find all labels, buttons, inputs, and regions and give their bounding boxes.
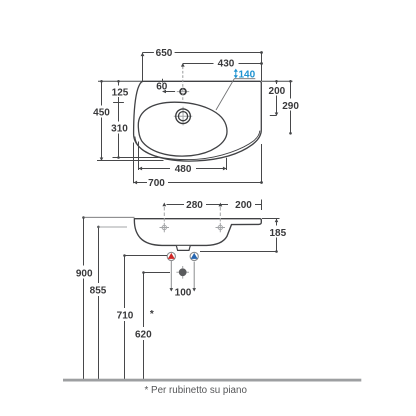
dim 480 (139, 142, 227, 176)
dim 650 (141, 48, 263, 81)
left vertical dim 900 (76, 216, 135, 379)
svg-text:* Per rubinetto su piano: * Per rubinetto su piano (145, 385, 248, 396)
mounting hole crosshair right (216, 223, 226, 233)
svg-text:100: 100 (175, 288, 192, 299)
faucet hole circle (180, 89, 186, 95)
svg-text:650: 650 (156, 48, 173, 59)
faucet centerline (dashed) (182, 67, 184, 101)
svg-text:430: 430 (218, 59, 235, 70)
basin inner bottom rim line (top view) (135, 131, 260, 160)
svg-text:710: 710 (117, 311, 134, 322)
left vertical dim 855 (90, 226, 127, 379)
svg-text:900: 900 (76, 268, 93, 279)
dim 280 / 200 (front view) (162, 200, 261, 212)
floor bar (63, 379, 361, 382)
dim 200 (top view right) (269, 80, 286, 116)
dim 60 (156, 79, 175, 93)
faucet hole centerline tick (177, 91, 189, 93)
svg-text:125: 125 (112, 87, 129, 98)
svg-text:620: 620 (135, 330, 152, 341)
overflow hole inner circle (178, 112, 187, 121)
svg-text:310: 310 (111, 124, 128, 135)
dashed lines to holes (163, 207, 165, 222)
dim 140 blue with updown icon (234, 69, 256, 81)
svg-text:290: 290 (282, 101, 299, 112)
dim 450 (93, 80, 163, 161)
hot water symbol (red) (167, 252, 175, 260)
dim 430 (181, 59, 263, 70)
drain spigot (front view) (176, 246, 190, 251)
left vertical dim 620 (135, 271, 170, 379)
mounting hole crosshair left (160, 223, 170, 233)
overflow hole outer circle (176, 109, 191, 124)
svg-text:200: 200 (235, 200, 252, 211)
bowl oval (top view) (138, 102, 227, 156)
dim 310 (111, 103, 159, 159)
svg-text:185: 185 (269, 228, 286, 239)
basin outline (top view) (134, 81, 262, 161)
svg-text:700: 700 (148, 178, 165, 189)
svg-text:280: 280 (186, 200, 203, 211)
svg-text:480: 480 (175, 164, 192, 175)
svg-text:60: 60 (156, 81, 168, 92)
dim 700 (134, 143, 263, 190)
overflow centerline cross (174, 107, 192, 126)
svg-text:855: 855 (90, 286, 107, 297)
svg-text:*: * (150, 309, 154, 320)
dim 290 (top view right) (282, 80, 299, 135)
left vertical dim 710 (117, 254, 167, 379)
leader line for 140 (216, 79, 255, 110)
basin outline (front view) (134, 219, 261, 246)
dim 100 (supply spacing) (170, 261, 197, 299)
svg-text:450: 450 (93, 108, 110, 119)
drain outlet circle (front view) (176, 266, 189, 279)
right top extension line (262, 80, 293, 82)
dim 185 (front view right) (200, 219, 287, 253)
svg-text:200: 200 (269, 86, 286, 97)
dim 125 (112, 80, 129, 103)
cold water symbol (blue) (190, 252, 198, 260)
